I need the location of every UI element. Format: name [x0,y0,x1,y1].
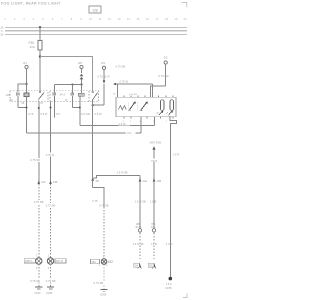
svg-text:48C B: 48C B [56,259,63,263]
wire right lamp to ground [46,264,58,287]
wire relay1 contact output to fog lamp left [38,102,47,258]
wire relay2 coil output [79,102,90,126]
svg-text:1.5 B: 1.5 B [151,242,157,246]
svg-text:0.75 BL-R: 0.75 BL-R [98,75,110,79]
inline arrow right fog wire [45,180,57,207]
wire rear fog lamp to ground [93,264,105,289]
page corner mark top right [182,3,187,8]
dashed wire v-R1 [133,233,144,261]
svg-text:1.5 R: 1.5 R [166,242,172,246]
wire fuse down to relay 1 contact [39,50,41,92]
svg-text:0.75 W: 0.75 W [120,80,129,84]
svg-text:C8: C8 [92,7,98,12]
svg-text:1.5 R: 1.5 R [125,131,131,135]
title [1,2,61,6]
svg-text:14: 14 [127,17,130,21]
svg-text:48A: 48A [91,260,96,264]
inline connector chevrons on wire 3/8 [80,74,84,80]
svg-text:1.5 R: 1.5 R [173,152,179,156]
svg-text:0.5 R: 0.5 R [41,112,47,116]
relay R1 box [6,91,49,102]
svg-text:31/55: 31/55 [165,287,172,290]
svg-text:44B: 44B [157,179,162,183]
illumination lamp 1 in unit [160,100,164,111]
wire left lamp to ground [30,264,42,287]
coil relay R2 [78,93,84,101]
end arrow v-R2 with label 29B [148,263,156,269]
svg-text:FOG LIGHT, REAR FOG LIGHT: FOG LIGHT, REAR FOG LIGHT [1,2,61,6]
unit bottom pin ticks [124,117,173,119]
switch contact 1 in unit [128,101,136,110]
dashed wire v-R2 [151,233,157,261]
wire unit pin 4 down [140,117,142,133]
LED arrow under lamp 1 [157,110,164,115]
svg-text:0.75: 0.75 [28,112,34,116]
unit top pin numbers [113,94,137,96]
wire relay R2 diode output jog [73,95,80,107]
unit top pin ticks [124,95,173,97]
inline arrow on rear fog wire [91,177,99,187]
svg-text:4/9: 4/9 [101,61,105,65]
svg-text:1.5 R-SB: 1.5 R-SB [117,171,128,175]
svg-text:0.75 GR: 0.75 GR [159,74,169,78]
svg-text:31/54: 31/54 [100,294,107,297]
diode relay R2 left [53,93,56,102]
fuse F30 10A [29,41,43,51]
svg-text:0.75 W: 0.75 W [46,153,55,157]
node relay2 coil feed [80,83,82,85]
svg-text:0.5 W: 0.5 W [95,112,102,116]
diode relay R1 [17,93,20,96]
wire relay1 coil output [26,102,34,134]
label on h-B [125,131,136,135]
unit S1 fog light switch box [116,97,176,116]
svg-text:19: 19 [175,17,178,21]
svg-text:0.75 SB: 0.75 SB [129,94,137,96]
node tap on bus 15 [39,26,41,28]
connector C8 box [89,6,101,13]
label on h-A [118,122,130,126]
wire bus to fuse [39,27,41,40]
inline arrow on 4/9 wire [103,80,106,105]
svg-text:17: 17 [156,17,159,21]
svg-text:1.5 R-SB: 1.5 R-SB [133,242,144,246]
svg-text:0.75: 0.75 [92,199,98,203]
ground point dot [165,277,172,290]
svg-text:3/1: 3/1 [23,61,27,65]
svg-text:1.5 A: 1.5 A [166,283,172,286]
svg-text:0.75 SB: 0.75 SB [46,279,56,283]
ground rear fog lamp [100,290,108,297]
svg-text:1487 SVB: 1487 SVB [149,140,161,144]
ground left fog lamp [34,287,42,295]
svg-text:0.5: 0.5 [56,112,60,116]
mechanical link dashes in unit [129,102,138,110]
bus 30 [0,33,187,37]
unit bottom pin numbers [123,121,168,123]
ruler scale numbers [4,17,187,21]
inline arrow left fog wire [34,180,46,204]
svg-text:11: 11 [99,17,102,21]
label on ground drop [166,152,179,245]
svg-text:136: 136 [6,93,11,97]
wire labels left fog lamp feed [30,158,42,162]
wire h-B relay1 coil to unit [27,132,142,134]
wire h-A relay2 output to unit [80,117,155,126]
node relay1 coil feed [25,83,27,85]
svg-text:0.75 SB: 0.75 SB [30,279,40,283]
wire labels right fog lamp feed [46,102,58,258]
svg-text:24B: 24B [53,180,58,184]
svg-text:0.75 SB: 0.75 SB [46,203,56,207]
svg-text:20: 20 [184,17,187,21]
svg-text:1.5 R-SB: 1.5 R-SB [135,199,146,203]
relay R1 pin numbers [10,99,44,105]
junction dot at fuse output [39,55,41,57]
svg-text:0.75 SB: 0.75 SB [94,281,104,285]
svg-text:1.5 W: 1.5 W [119,122,126,126]
relay R2 box [50,91,99,102]
LED arrow under lamp 2 [166,110,173,115]
svg-text:0.75 SB: 0.75 SB [34,200,44,204]
svg-text:29A: 29A [134,264,139,267]
contact relay R2 [92,91,98,105]
svg-text:18: 18 [165,17,168,21]
wire v-R1 down [135,176,148,233]
svg-text:0.75 SB: 0.75 SB [30,158,40,162]
wire rear fog feed down [93,105,102,177]
svg-text:7/8 R: 7/8 R [151,159,157,163]
wire relay2 diode stub [54,102,60,118]
diode relay R2 [71,93,74,96]
connector 3/8 feeding relay 2 coil [78,61,83,73]
wire jog into relay 1 diode [18,84,27,93]
svg-text:48B G: 48B G [25,259,32,263]
ground right fog lamp [46,287,54,295]
svg-text:4B: 4B [96,179,99,183]
switch contact 2 in unit [140,101,148,111]
rheostat zigzag in unit [118,106,126,110]
wire 4/9 joins relay2 contact output [92,104,104,106]
rear fog lamp 452 [91,255,114,266]
fog lamp left 48B [24,254,42,270]
svg-text:34 3: 34 3 [60,92,66,96]
svg-text:1.5 B: 1.5 B [150,199,156,203]
svg-text:0.5 GR: 0.5 GR [81,112,90,116]
svg-text:452: 452 [108,260,114,264]
svg-text:15: 15 [137,17,140,21]
svg-text:29B: 29B [149,265,154,267]
connector 3/5 wire to unit top [151,56,169,97]
wire branch into relay 2 diodes and coil [54,84,81,94]
illumination lamp 2 in unit [170,100,174,111]
svg-text:31/52: 31/52 [34,292,41,295]
svg-text:13: 13 [118,17,121,21]
wire h3 rear fog jog to v-R1 [93,171,140,178]
svg-text:30: 30 [0,33,4,37]
svg-text:0.75 SB: 0.75 SB [116,64,126,68]
svg-text:3/8: 3/8 [78,61,82,65]
svg-text:3/5: 3/5 [164,56,168,60]
fog lamp right 48C [47,254,66,270]
relay R2 pin number [65,99,68,102]
wire fuse output horizontal to relay 2 contact [40,57,93,92]
coil relay R1 [24,93,29,102]
wire jog to lamp 452 [92,188,108,259]
svg-text:44A: 44A [143,179,148,183]
svg-text:12: 12 [108,17,111,21]
svg-text:10A: 10A [30,45,35,49]
bus X [1,29,187,33]
svg-text:24A: 24A [41,180,46,184]
svg-text:31/53: 31/53 [46,292,53,295]
connector 3/1 feeding relay 1 coil [23,61,28,84]
end arrow v-R1 with label 29A [134,263,142,269]
wire switch-feed arrow into unit top [113,64,153,97]
wire relay R1 diode output jog [18,96,27,108]
page corner mark bottom right [183,293,187,297]
svg-text:10: 10 [89,17,92,21]
bus 15 [0,26,187,30]
svg-text:16: 16 [146,17,149,21]
svg-text:0.75 SB: 0.75 SB [99,204,109,208]
contact relay R1 [39,91,44,101]
wire v-R2 from SVB feed [149,140,161,233]
connector 4/9 wire [98,61,110,80]
wire unit illumination jog to ground drop [170,116,177,278]
wire chevrons to junction [81,79,83,84]
